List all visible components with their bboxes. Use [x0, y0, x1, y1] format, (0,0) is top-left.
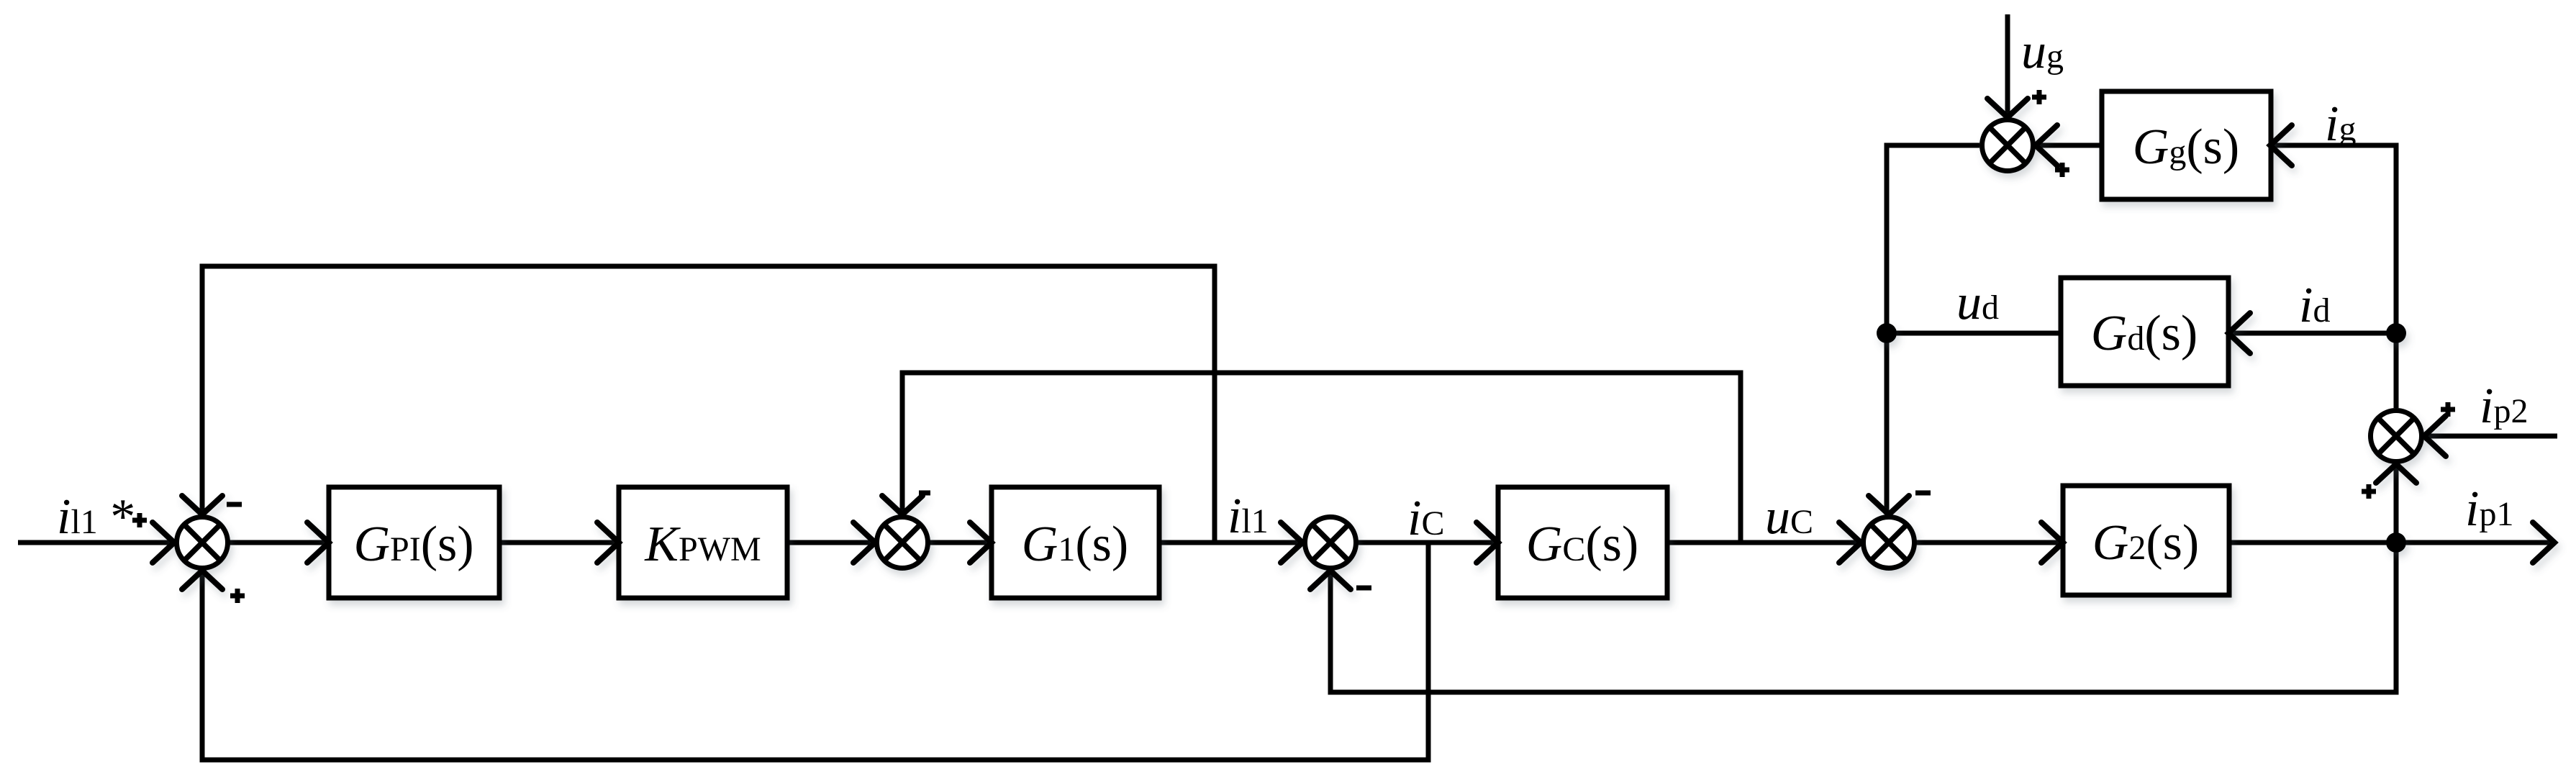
- arrow into Gd right: [2228, 313, 2250, 353]
- svg-text:ip1: ip1: [2465, 481, 2513, 537]
- summing junction sum3: [1305, 517, 1356, 568]
- wire: sum5 bottom to ip1 node: [2394, 464, 2399, 543]
- wire: sum3 to GC: [1356, 540, 1498, 545]
- junction node id dot: [2386, 323, 2406, 343]
- block G2(s): [2063, 486, 2229, 595]
- svg-text:Gd(s): Gd(s): [2091, 306, 2198, 361]
- sign plus at sum1 bottom: [230, 589, 245, 603]
- wire: input il1* line: [18, 540, 174, 545]
- wire: Gg output to sum6: [2036, 143, 2102, 148]
- summing junction sum6: [1982, 120, 2033, 171]
- label ip1: [2465, 481, 2513, 537]
- summing junction sum5: [2371, 411, 2422, 462]
- svg-text:il1 *: il1 *: [57, 489, 135, 545]
- arrow into sum5 right: [2424, 416, 2446, 456]
- arrow into sum2 left: [853, 522, 875, 563]
- arrow into G1: [970, 522, 992, 563]
- arrow into sum5 bottom: [2376, 464, 2416, 483]
- svg-text:iC: iC: [1407, 491, 1444, 546]
- wire: GC to sum4: [1667, 540, 1861, 545]
- block GC(s): [1498, 487, 1667, 598]
- sign minus at sum3 bottom: [1356, 586, 1371, 591]
- label Gg(s) in block: [2133, 119, 2239, 175]
- arrow into sum1 left: [153, 522, 174, 563]
- wire: sum1 to GPI: [228, 540, 329, 545]
- sign plus at sum5 bottom: [2362, 484, 2376, 499]
- svg-text:id: id: [2299, 278, 2330, 333]
- wire: bottom feedback 1 (from ip1 node down, left, up into sum3): [1330, 543, 2396, 692]
- label iC: [1407, 491, 1444, 546]
- arrow into sum6 top: [1987, 99, 2028, 117]
- wire: ip2 input: [2424, 434, 2557, 439]
- label Gd(s) in block: [2091, 306, 2198, 361]
- arrow into sum1 top: [182, 496, 222, 514]
- summing junction sum2: [877, 517, 928, 568]
- svg-text:Gg(s): Gg(s): [2133, 119, 2239, 175]
- arrow into KPWM: [597, 522, 619, 563]
- block KPWM: [619, 487, 787, 598]
- wire: sum2 to G1: [928, 540, 992, 545]
- wire: sum4 to G2: [1915, 540, 2063, 545]
- svg-text:il1: il1: [1228, 489, 1269, 544]
- label G2(s) in block: [2092, 515, 2199, 571]
- wire: KPWM to sum2: [787, 540, 875, 545]
- label uC: [1765, 489, 1813, 545]
- label ug: [2021, 24, 2064, 79]
- wire: loop A feedback (tap after G1 up, across top, down into sum1): [202, 266, 1215, 543]
- label GPI(s) in block: [353, 517, 473, 572]
- summing junction sum1: [177, 517, 228, 568]
- arrow into sum1 bottom: [182, 571, 222, 589]
- label il1 after G1: [1228, 489, 1269, 544]
- arrow into sum3 bottom: [1310, 571, 1351, 589]
- sign minus at sum1 top: [227, 502, 242, 507]
- sign minus at sum4 top: [1915, 491, 1931, 496]
- block GPI(s): [329, 487, 499, 598]
- wire: ug input vertical: [2005, 14, 2010, 117]
- label GC(s) in block: [1526, 517, 1638, 572]
- label G1(s) in block: [1022, 517, 1128, 572]
- arrow into GC: [1477, 522, 1498, 563]
- svg-text:G1(s): G1(s): [1022, 517, 1128, 572]
- sign plus at sum6 right: [2055, 163, 2069, 177]
- label il1*: [57, 489, 135, 545]
- junction node ip1 dot: [2386, 532, 2406, 553]
- wire: GPI to KPWM: [499, 540, 619, 545]
- block Gg(s): [2102, 91, 2271, 199]
- wire: Gd output ud line: [1887, 331, 2061, 336]
- arrow into sum3 left: [1281, 522, 1302, 563]
- label ig: [2325, 96, 2356, 152]
- block G1(s): [992, 487, 1159, 598]
- wire: bottom feedback 2 (iC tap down, left, up into sum1): [202, 543, 1428, 760]
- junction node ud dot: [1877, 323, 1897, 343]
- svg-text:ud: ud: [1956, 275, 1999, 330]
- sign plus at sum5 right: [2441, 402, 2455, 417]
- label ip2: [2480, 378, 2528, 434]
- wire: G2 to ip1 output: [2229, 540, 2554, 545]
- label ud: [1956, 275, 1999, 330]
- summing junction sum4: [1864, 517, 1915, 568]
- label id: [2299, 278, 2330, 333]
- svg-text:ig: ig: [2325, 96, 2356, 152]
- arrow into G2: [2041, 522, 2063, 563]
- label KPWM in block: [644, 517, 761, 572]
- svg-text:uC: uC: [1765, 489, 1813, 545]
- sign plus at sum1 input: [132, 513, 147, 527]
- wire: G1 to sum3: [1159, 540, 1302, 545]
- sign minus at sum2 top: [919, 491, 930, 496]
- arrow into sum2 top: [882, 496, 922, 514]
- sign plus at sum6 top: [2032, 90, 2046, 104]
- svg-text:G2(s): G2(s): [2092, 515, 2199, 571]
- wire: id line into Gd: [2228, 331, 2396, 336]
- arrow into GPI: [307, 522, 329, 563]
- arrow ip1 output: [2533, 522, 2554, 563]
- wire: loop B feedback (tap after GC up, across, down into sum2): [902, 373, 1741, 543]
- svg-text:ip2: ip2: [2480, 378, 2528, 434]
- wire: sum6 output left and down into sum4: [1887, 145, 1979, 514]
- wire: ig line from right vertical to Gg: [2270, 145, 2396, 408]
- arrow into sum4 left: [1839, 522, 1861, 563]
- arrow into Gg right: [2270, 125, 2292, 165]
- arrow into sum6 right: [2036, 125, 2057, 165]
- svg-text:ug: ug: [2021, 24, 2064, 79]
- block Gd(s): [2061, 278, 2228, 386]
- arrow into sum4 top: [1869, 496, 1909, 514]
